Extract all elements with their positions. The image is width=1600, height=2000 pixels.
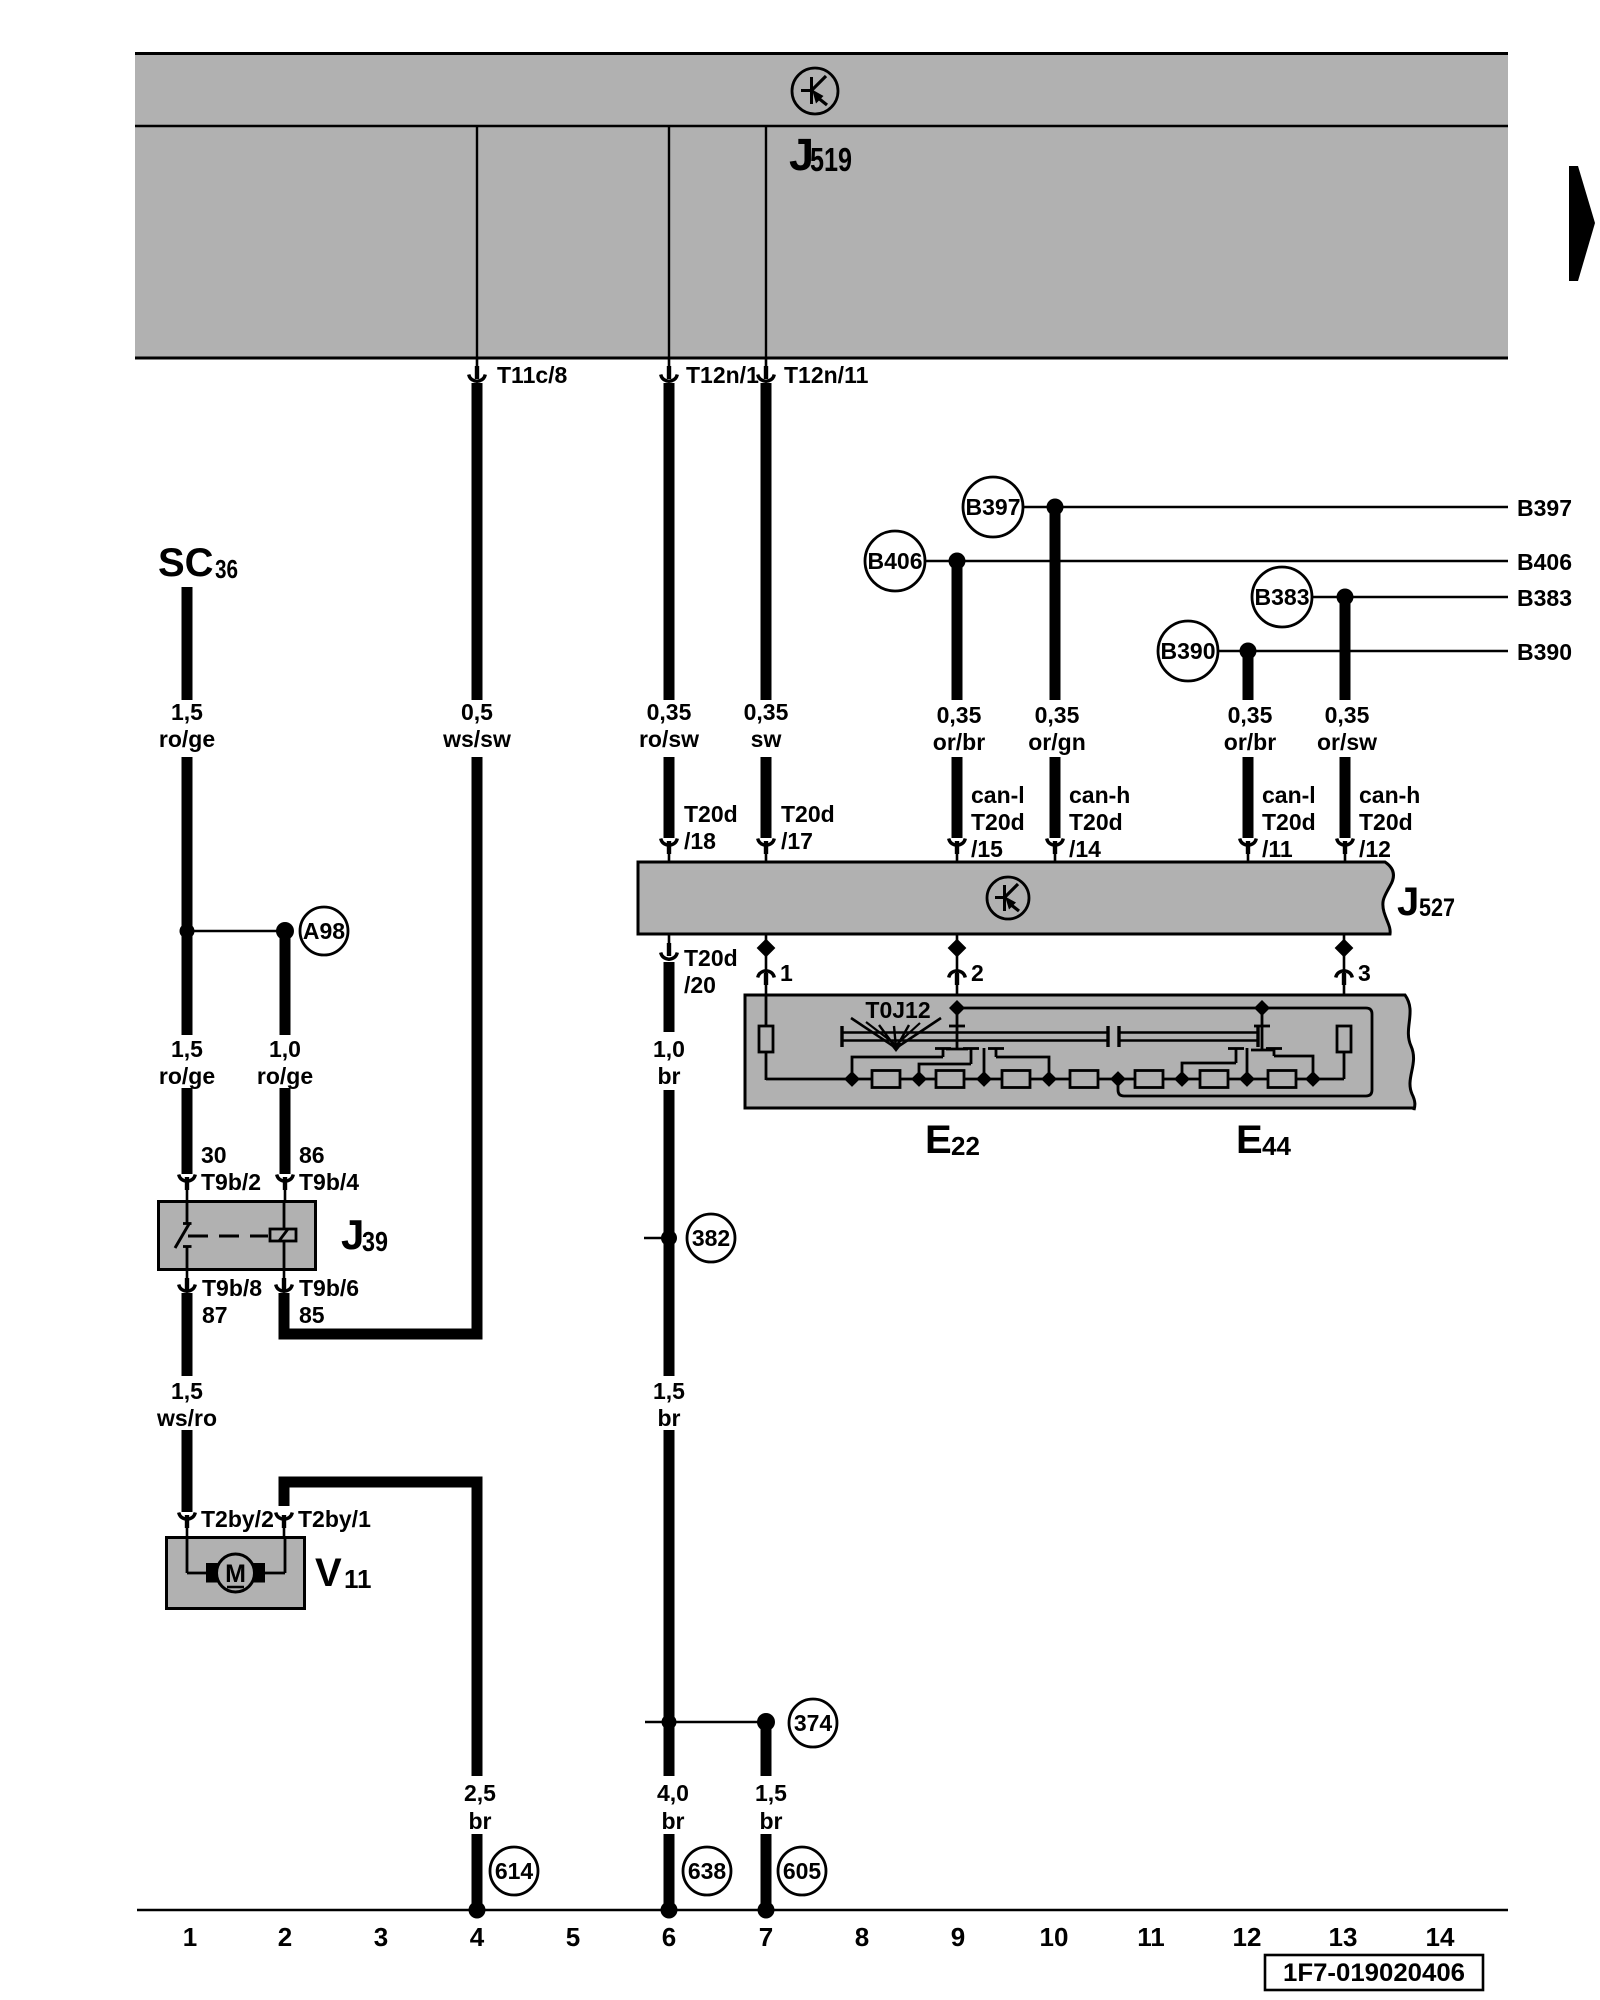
resistor chain bus: [766, 1078, 1344, 1081]
svg-text:J: J: [341, 1211, 364, 1258]
svg-text:T20d: T20d: [1262, 809, 1316, 835]
svg-text:3: 3: [1358, 960, 1371, 986]
chain resistor R5: [1135, 1071, 1163, 1088]
svg-text:2: 2: [971, 960, 984, 986]
svg-text:0,35: 0,35: [744, 699, 789, 725]
E22 label: [925, 1118, 980, 1162]
track numbers 1-14: [183, 1922, 1455, 1952]
junction 374 crossbar: [645, 1721, 766, 1724]
wire 1,5 ro/ge to relay segment: [182, 1088, 193, 1174]
svg-text:13: 13: [1329, 1922, 1358, 1952]
pin T20d/17 entry arrow: [758, 801, 835, 862]
wire 0,35 ro/sw from T12n/1 upper segment: [664, 383, 675, 700]
svg-text:T20d: T20d: [684, 945, 738, 971]
wire 0,35 or/br lower segment: [952, 757, 963, 838]
E44 resistor (vertical, pin 3): [1337, 1026, 1351, 1079]
svg-text:ws/ro: ws/ro: [156, 1405, 217, 1431]
wire label 1,0 ro/ge: [257, 1036, 313, 1089]
connector B406 circle: [865, 531, 925, 591]
connector A98 circle: [300, 907, 348, 955]
wire 1,0 ro/ge upper segment: [280, 931, 291, 1035]
svg-text:8: 8: [855, 1922, 869, 1952]
junction node on SC36 wire: [180, 924, 195, 939]
svg-text:11: 11: [1137, 1922, 1165, 1952]
E22 sender track (left potentiometer): [842, 1026, 1108, 1047]
svg-text:can-h: can-h: [1359, 782, 1420, 808]
svg-text:0,35: 0,35: [1228, 702, 1273, 728]
wire 1,0 ro/ge lower segment: [280, 1088, 291, 1174]
pin T9b/6 85 exit arrow: [276, 1271, 359, 1328]
current-track continuation arrow (right margin): [1569, 166, 1595, 281]
svg-text:3: 3: [374, 1922, 388, 1952]
svg-text:V: V: [315, 1551, 342, 1595]
wire 2 wiper crossing (E22): [946, 1000, 968, 1050]
chain resistor R2: [936, 1071, 964, 1088]
pin T20d/20 exit arrow below J527: [661, 934, 738, 998]
wire B406 to right margin: [925, 560, 1508, 563]
wire label 1,5 ws/ro: [156, 1378, 217, 1431]
svg-text:or/sw: or/sw: [1317, 729, 1377, 755]
svg-text:J: J: [1397, 880, 1419, 924]
svg-text:44: 44: [1262, 1131, 1291, 1161]
pin 86 T9b/4 entry arrow: [277, 1142, 360, 1200]
fuse SC36 label: [158, 541, 238, 585]
svg-text:1: 1: [183, 1922, 197, 1952]
svg-text:T20d: T20d: [684, 801, 738, 827]
wire to A98 junction: [187, 930, 285, 933]
wire inside J519 to T11c/8: [476, 126, 478, 358]
svg-text:T20d: T20d: [1069, 809, 1123, 835]
svg-text:T20d: T20d: [1359, 809, 1413, 835]
wire B397 to right margin: [1023, 506, 1508, 509]
J527 label: [1397, 880, 1455, 924]
svg-text:85: 85: [299, 1302, 325, 1328]
svg-text:638: 638: [688, 1858, 727, 1884]
K diagnostic symbol in J519: [792, 68, 838, 114]
motor symbol in V11: [187, 1537, 285, 1592]
svg-text:or/br: or/br: [1224, 729, 1276, 755]
svg-text:T9b/4: T9b/4: [299, 1169, 359, 1195]
wire inside J519 to T12n/11: [765, 126, 767, 358]
wire B383 to right margin: [1312, 596, 1508, 599]
svg-text:br: br: [662, 1808, 685, 1834]
sensing loop from wire 2 around E44: [957, 1008, 1372, 1096]
ground wire 614 bottom segment: [472, 1834, 483, 1910]
wire 0,35 or/gn from B397 upper segment: [1050, 507, 1061, 700]
pin T2by/2 entry arrow: [179, 1506, 274, 1537]
ground wire 638 bottom segment: [664, 1834, 675, 1910]
node on wire 669 for 374: [662, 1715, 677, 1730]
wire label 1,5 br: [653, 1378, 685, 1431]
wire label 1,0 br: [653, 1036, 685, 1089]
node B390: [1240, 643, 1257, 660]
K diagnostic symbol in J527: [987, 877, 1029, 919]
chain resistor R3: [1002, 1071, 1030, 1088]
J519 label: [789, 129, 852, 180]
pin T9b/8 87 exit arrow: [179, 1271, 263, 1328]
node B406: [949, 553, 966, 570]
svg-text:A98: A98: [303, 918, 345, 944]
ground wire from V11 T2by/1 (L-bend up to track 4): [284, 1482, 477, 1776]
svg-text:T2by/2: T2by/2: [201, 1506, 274, 1532]
connector B397 circle: [963, 477, 1023, 537]
T0J12 label with fan arrows: [851, 997, 941, 1052]
svg-text:605: 605: [783, 1858, 822, 1884]
svg-text:br: br: [469, 1808, 492, 1834]
V11 label: [315, 1551, 372, 1595]
wire 0,35 ro/sw lower segment: [664, 757, 675, 838]
wire label 0,35 sw: [744, 699, 789, 752]
wire 1,5 ws/ro from relay pin 87: [182, 1293, 193, 1376]
wire br middle segment with node 382: [664, 1090, 675, 1376]
wire 0,35 sw lower segment: [761, 757, 772, 838]
wire B390 to right margin: [1218, 650, 1508, 653]
svg-text:519: 519: [810, 141, 852, 178]
svg-text:SC: SC: [158, 541, 214, 585]
junction 382 tick: [644, 1237, 669, 1240]
svg-text:T0J12: T0J12: [865, 997, 930, 1023]
svg-text:1: 1: [780, 960, 793, 986]
svg-text:sw: sw: [751, 726, 782, 752]
connector 2 below J527: [948, 934, 984, 1008]
svg-text:22: 22: [951, 1131, 980, 1161]
wire label 1,5 ro/ge (left): [159, 1036, 215, 1089]
wire label 1,5 ro/ge: [159, 699, 215, 752]
node B397: [1047, 499, 1064, 516]
svg-text:39: 39: [362, 1226, 388, 1257]
wire 0,35 or/sw lower segment: [1340, 757, 1351, 838]
node A98: [276, 922, 294, 940]
svg-text:1,5: 1,5: [755, 1780, 787, 1806]
svg-text:87: 87: [202, 1302, 228, 1328]
pin can-h T20d/12 entry arrow: [1337, 782, 1421, 862]
wire SC36 1,5 ro/ge lower segment: [182, 757, 193, 1035]
diagram part number box: [1265, 1955, 1483, 1990]
svg-text:1,5: 1,5: [653, 1378, 685, 1404]
wire label 0,35 ro/sw: [639, 699, 699, 752]
svg-text:/11: /11: [1262, 836, 1293, 862]
node start of 1,5 br drop: [757, 1713, 775, 1731]
svg-text:0,35: 0,35: [647, 699, 692, 725]
svg-text:E: E: [925, 1118, 952, 1162]
svg-text:B390: B390: [1161, 638, 1216, 664]
svg-text:1F7-019020406: 1F7-019020406: [1283, 1959, 1465, 1987]
svg-text:/15: /15: [971, 836, 1003, 862]
wire 0,5 ws/sw to relay pin 85 (L-bend): [284, 757, 477, 1334]
svg-text:0,5: 0,5: [461, 699, 493, 725]
svg-text:B406: B406: [1517, 549, 1572, 575]
E22 resistor (vertical, pin 1): [759, 995, 773, 1080]
svg-text:7: 7: [759, 1922, 773, 1952]
svg-text:1,5: 1,5: [171, 1036, 203, 1062]
svg-text:can-l: can-l: [1262, 782, 1316, 808]
ground point circle 605: [778, 1847, 826, 1895]
svg-text:br: br: [760, 1808, 783, 1834]
pin T12n/11 exit arrow: [758, 358, 869, 388]
svg-text:11: 11: [344, 1564, 372, 1594]
chain resistor R6: [1200, 1071, 1228, 1088]
junction circle 374: [789, 1699, 837, 1747]
svg-text:can-h: can-h: [1069, 782, 1130, 808]
svg-text:E: E: [1236, 1118, 1263, 1162]
sender E22/E44 unit (box with torn right edge): [745, 995, 1415, 1110]
svg-text:30: 30: [201, 1142, 227, 1168]
svg-text:6: 6: [662, 1922, 676, 1952]
connector B390 circle: [1158, 621, 1218, 681]
chain resistor R1: [872, 1071, 900, 1088]
svg-text:1,0: 1,0: [653, 1036, 685, 1062]
svg-text:5: 5: [566, 1922, 580, 1952]
ground point circle 614: [490, 1847, 538, 1895]
wire SC36 1,5 ro/ge upper segment: [182, 587, 193, 700]
svg-text:T2by/1: T2by/1: [298, 1506, 371, 1532]
svg-text:B390: B390: [1517, 639, 1572, 665]
wire 1,5 br from 374 down: [761, 1722, 772, 1776]
wiper crossing node (E44): [1251, 1000, 1273, 1050]
svg-text:2,5: 2,5: [464, 1780, 496, 1806]
pin T2by/1 entry arrow: [276, 1506, 371, 1537]
wire 1,5 ws/ro lower segment: [182, 1430, 193, 1512]
pin T12n/1 exit arrow: [661, 358, 759, 388]
E44 sender track (right potentiometer): [1119, 1026, 1258, 1047]
svg-text:4,0: 4,0: [657, 1780, 689, 1806]
svg-text:B406: B406: [868, 548, 923, 574]
svg-text:ro/ge: ro/ge: [159, 1063, 215, 1089]
connector 3 below J527: [1335, 934, 1371, 1026]
node B383: [1337, 589, 1354, 606]
wire 0,35 or/sw from B383 upper segment: [1340, 597, 1351, 700]
connector B383 circle: [1252, 567, 1312, 627]
svg-text:ro/sw: ro/sw: [639, 726, 699, 752]
svg-text:T9b/6: T9b/6: [299, 1275, 359, 1301]
svg-text:B383: B383: [1517, 585, 1572, 611]
wire 0,35 or/br from B406 upper segment: [952, 561, 963, 700]
svg-text:614: 614: [495, 1858, 534, 1884]
connector 1 below J527: [757, 934, 793, 995]
pin can-h T20d/14 entry arrow: [1047, 782, 1131, 862]
J39 label: [341, 1211, 388, 1258]
svg-text:T20d: T20d: [781, 801, 835, 827]
svg-text:T12n/11: T12n/11: [784, 362, 869, 388]
svg-text:527: 527: [1419, 894, 1455, 922]
svg-text:/20: /20: [684, 972, 716, 998]
svg-text:/18: /18: [684, 828, 716, 854]
svg-text:B383: B383: [1255, 584, 1310, 610]
svg-text:ws/sw: ws/sw: [442, 726, 511, 752]
relay J39 headlamp washer (box): [159, 1202, 316, 1270]
E44 label: [1236, 1118, 1291, 1162]
svg-text:or/gn: or/gn: [1028, 729, 1086, 755]
svg-text:T9b/8: T9b/8: [202, 1275, 262, 1301]
svg-text:2: 2: [278, 1922, 292, 1952]
E22 measuring cell stubs: [852, 1048, 1049, 1080]
svg-text:86: 86: [299, 1142, 325, 1168]
control unit J519 onboard supply (box): [135, 52, 1508, 359]
svg-text:0,35: 0,35: [1035, 702, 1080, 728]
svg-text:1,0: 1,0: [269, 1036, 301, 1062]
pin 30 T9b/2 entry arrow: [179, 1142, 261, 1200]
pin can-l T20d/11 entry arrow: [1240, 782, 1316, 862]
svg-text:382: 382: [692, 1225, 730, 1251]
pin can-l T20d/15 entry arrow: [949, 782, 1025, 862]
wire 0,35 or/gn lower segment: [1050, 757, 1061, 838]
current track rail: [137, 1909, 1508, 1912]
svg-text:10: 10: [1040, 1922, 1069, 1952]
svg-text:374: 374: [794, 1710, 833, 1736]
wire 1,0 br from T20d/20: [664, 962, 675, 1032]
relay actuation dashed line: [188, 1235, 268, 1238]
svg-text:B397: B397: [1517, 495, 1572, 521]
svg-text:T20d: T20d: [971, 809, 1025, 835]
wire 0,35 sw from T12n/11 upper segment: [761, 383, 772, 700]
wire label 0,35 or/sw: [1317, 702, 1377, 755]
svg-text:9: 9: [951, 1922, 965, 1952]
ground point circle 638: [683, 1847, 731, 1895]
wire label 0,5 ws/sw: [442, 699, 511, 752]
wire br segment to junction 374: [664, 1430, 675, 1776]
svg-text:can-l: can-l: [971, 782, 1025, 808]
svg-text:1,5: 1,5: [171, 1378, 203, 1404]
bus junction nodes: [844, 1071, 1321, 1087]
relay coil: [270, 1201, 296, 1271]
svg-text:0,35: 0,35: [937, 702, 982, 728]
svg-text:4: 4: [470, 1922, 485, 1952]
wire label 0,35 or/br: [933, 702, 985, 755]
wire label 0,35 or/br (right): [1224, 702, 1276, 755]
ground wire labels 2,5 br / 4,0 br / 1,5 br: [464, 1780, 787, 1834]
svg-text:ro/ge: ro/ge: [257, 1063, 313, 1089]
relay switch contact 30-87: [175, 1201, 192, 1271]
svg-text:or/br: or/br: [933, 729, 985, 755]
svg-text:T11c/8: T11c/8: [497, 362, 568, 388]
chain resistor R7: [1268, 1071, 1296, 1088]
svg-text:14: 14: [1426, 1922, 1455, 1952]
windscreen washer pump V11 (box): [167, 1538, 305, 1609]
svg-text:0,35: 0,35: [1325, 702, 1370, 728]
svg-text:br: br: [658, 1063, 681, 1089]
wire inside J519 to T12n/1: [668, 126, 670, 358]
svg-text:12: 12: [1233, 1922, 1262, 1952]
svg-text:B397: B397: [966, 494, 1021, 520]
svg-text:/14: /14: [1069, 836, 1101, 862]
pin T11c/8 exit arrow: [469, 358, 568, 388]
svg-text:1,5: 1,5: [171, 699, 203, 725]
chain resistor R4: [1070, 1071, 1098, 1088]
E44 measuring cell stubs: [1182, 1048, 1313, 1080]
wire 0,35 or/br lower segment (right): [1243, 757, 1254, 838]
svg-text:br: br: [658, 1405, 681, 1431]
svg-text:/17: /17: [781, 828, 813, 854]
svg-text:T12n/1: T12n/1: [686, 362, 759, 388]
svg-text:M: M: [225, 1560, 246, 1588]
gateway control unit J527 (box with torn right edge): [638, 862, 1393, 934]
junction circle 382: [687, 1214, 735, 1262]
svg-text:T9b/2: T9b/2: [201, 1169, 261, 1195]
svg-text:ro/ge: ro/ge: [159, 726, 215, 752]
ground node dots on track rail: [469, 1902, 486, 1919]
svg-text:/12: /12: [1359, 836, 1391, 862]
wire 0,5 ws/sw from T11c/8 upper segment: [472, 383, 483, 700]
ground wire 605 bottom segment: [761, 1834, 772, 1910]
pin T20d/18 entry arrow: [661, 801, 738, 862]
wire 0,35 or/br from B390 upper segment: [1243, 651, 1254, 700]
wire label 0,35 or/gn: [1028, 702, 1086, 755]
svg-text:36: 36: [215, 554, 238, 584]
node on wire for 382: [661, 1230, 677, 1246]
